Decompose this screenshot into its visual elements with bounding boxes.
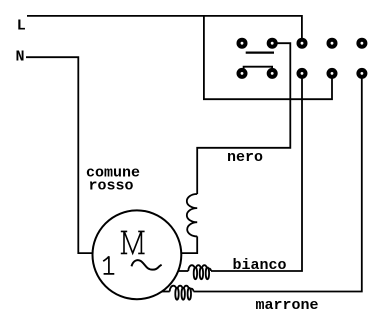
wire bianco to lower terminal 3 <box>211 73 302 271</box>
inductor main winding (bianco) <box>188 265 211 279</box>
terminal T8 bottom row col3 <box>297 68 308 79</box>
svg-text:N: N <box>16 49 25 66</box>
wire N to motor left <box>26 57 93 253</box>
svg-text:nero: nero <box>227 149 263 166</box>
wire motor to aux winding (marrone) <box>162 291 170 293</box>
svg-text:L: L <box>17 18 26 35</box>
terminal T7 bottom row col2 <box>267 68 278 79</box>
motor M1 body <box>92 210 181 299</box>
wire motor to main winding (bianco) <box>179 270 189 272</box>
terminal T6 bottom row col1 <box>237 68 248 79</box>
wire L line to top terminal <box>27 16 302 43</box>
motor label 1 <box>103 256 114 274</box>
terminal T1 top row col1 <box>237 38 248 49</box>
wire L branch to lower terminal 4 <box>204 16 332 99</box>
switch blade (open contact) <box>246 51 274 53</box>
inductor start winding (nero) <box>187 194 197 236</box>
terminal T9 bottom row col4 <box>327 68 338 79</box>
svg-text:rosso: rosso <box>89 178 134 195</box>
svg-text:bianco: bianco <box>233 257 287 274</box>
wire start winding to motor right <box>181 236 197 253</box>
svg-text:marrone: marrone <box>256 297 319 314</box>
terminal T2 top row col2 <box>267 38 278 49</box>
terminal T4 top row col4 <box>327 38 338 49</box>
motor AC waveform <box>132 260 162 270</box>
wire nero run from switch to start winding <box>197 43 290 194</box>
terminal T5 top row col5 <box>356 38 367 49</box>
motor label M <box>121 231 145 253</box>
wire marrone to lower terminal 6 <box>194 73 362 291</box>
inductor winding (marrone) <box>170 286 194 300</box>
terminal T10 bottom row col5 <box>356 68 367 79</box>
terminal T3 top row col3 <box>297 38 308 49</box>
jumper bridge (closed contact) <box>244 67 273 70</box>
